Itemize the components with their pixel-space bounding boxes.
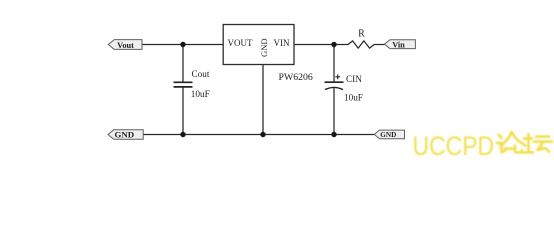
svg-text:Vout: Vout [117,41,134,50]
svg-text:VOUT: VOUT [228,38,253,48]
svg-text:GND: GND [259,38,269,57]
svg-text:PW6206: PW6206 [279,72,313,83]
svg-text:Vin: Vin [392,40,405,49]
svg-text:UCCPD: UCCPD [413,131,495,160]
svg-text:10uF: 10uF [191,89,210,99]
svg-text:CIN: CIN [346,74,362,84]
svg-text:VIN: VIN [274,38,290,48]
svg-text:GND: GND [115,129,135,139]
svg-text:GND: GND [380,131,396,139]
svg-text:R: R [358,29,365,40]
svg-text:10uF: 10uF [344,93,363,103]
svg-text:Cout: Cout [192,69,210,79]
